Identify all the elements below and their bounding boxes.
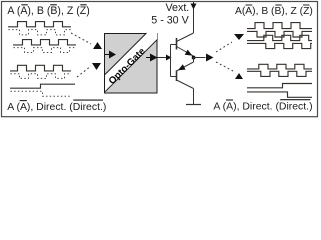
overbar Z top-right [303,4,309,6]
common base vertical wire [170,45,172,77]
waveform A-bar dotted bottom-left [11,74,72,79]
waveform B differential lower trace top-right [247,43,312,48]
overline Direct bottom-left [73,99,103,101]
waveform B-bar dotted top-left [14,48,77,53]
waveform A differential lower trace bottom-right [247,71,312,76]
waveform Direction differential lower trace bottom-right [247,92,312,97]
svg-text:5 - 30 V: 5 - 30 V [151,15,189,27]
svg-text:A (A), Direct. (Direct.): A (A), Direct. (Direct.) [7,102,106,113]
box output arrow [146,57,150,59]
waveform A differential upper trace top-right [247,23,312,29]
box input arrow [105,54,109,56]
transistor Q1 emitter [177,47,194,57]
arrowhead into base line [166,55,172,61]
waveform B differential upper trace top-right [247,35,312,40]
svg-text:A(A), B (B), Z (Z): A(A), B (B), Z (Z) [235,6,313,17]
svg-text:Vext.: Vext. [166,2,190,14]
overbar A top-right [246,4,253,6]
dashed arrow upper-left to box [71,33,91,44]
svg-text:A (A), B (B), Z (Z): A (A), B (B), Z (Z) [7,5,89,17]
output node [192,56,195,59]
wire box to base [158,57,171,59]
overbar A bottom-right [226,99,233,101]
Q1 emitter arrowhead [185,50,193,56]
transistor Q1 bar [176,38,178,50]
waveform Direction-bar dotted bottom-left [11,91,73,96]
band line lower [105,39,158,92]
dashed arrow to lower-right waveforms [216,62,233,71]
overbar B top-right [275,4,281,6]
band line upper [105,33,147,75]
diagonal band [105,33,157,92]
overline Direct bottom-right [280,99,310,101]
waveform A solid top-left [8,22,71,27]
transistor Q2 collector [177,80,194,89]
output wire [194,57,206,59]
overbar Z top-left [80,4,86,6]
supply down arrowhead [191,4,197,10]
waveform A differential lower trace top-right [247,31,312,37]
transistor Q1 NPN base lead [171,44,177,46]
waveform A-bar dotted top-left [9,30,72,35]
overbar A bottom-left [20,100,27,102]
arrowhead down-triangle left [92,63,101,70]
arrowhead down-triangle right [234,34,244,40]
overbar B top-left [50,4,57,6]
svg-text:A (A), Direct. (Direct.): A (A), Direct. (Direct.) [213,101,312,112]
dashed arrow to upper-right waveforms [216,42,232,52]
wire to ground [193,89,195,105]
waveform A differential upper trace bottom-right [247,64,312,69]
opto-gate box [105,34,158,94]
Q2 emitter arrowhead [178,64,186,70]
output arrowhead [206,54,214,62]
overbar A top-left [21,4,28,6]
supply line [193,2,195,33]
waveform B solid top-left [13,40,76,45]
dashed arrow lower-left to box [77,66,91,77]
arrowhead up-triangle left [93,42,102,49]
waveform Direction differential upper trace bottom-right [247,84,312,88]
transistor Q2 base lead [171,76,177,78]
transistor Q2 PNP emitter stub [193,58,195,63]
transistor Q1 collector [177,33,194,42]
waveform A solid bottom-left [10,65,71,71]
ground [186,104,201,106]
transistor Q2 emitter [177,62,194,71]
arrowhead up-triangle right [235,73,243,79]
transistor Q2 bar [176,71,178,82]
waveform Direction solid bottom-left [10,84,75,88]
